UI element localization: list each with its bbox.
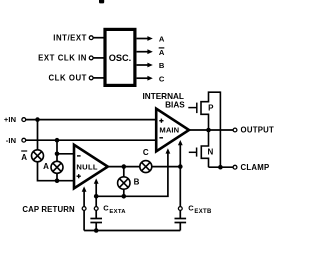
P gate lead from BIAS <box>188 107 197 109</box>
arrow into MAIN bottom (left) <box>166 148 171 153</box>
svg-text:CLK OUT: CLK OUT <box>49 74 88 83</box>
oscillator OSC <box>105 29 135 85</box>
wire CEXTB vertical up to MAIN <box>179 142 181 166</box>
node switch A to NULL + line <box>55 178 60 183</box>
svg-text:B: B <box>159 61 165 70</box>
wire NULL inverting input <box>57 153 75 155</box>
wire CEXTB vertical down to capacitor <box>179 167 181 219</box>
op-amp MAIN <box>156 109 189 152</box>
terminal CLAMP <box>233 163 269 172</box>
wire -IN row to MAIN - input <box>26 139 157 141</box>
svg-text:+IN: +IN <box>4 115 16 124</box>
wire CEXTA vertical <box>95 182 97 219</box>
op-amp NULL <box>74 145 108 189</box>
terminal CLK OUT <box>49 74 94 83</box>
svg-text:BIAS: BIAS <box>165 101 185 110</box>
svg-text:INT/EXT: INT/EXT <box>53 33 87 42</box>
chopper switch A <box>51 161 63 173</box>
svg-text:A: A <box>159 35 165 44</box>
svg-text:CAP RETURN: CAP RETURN <box>22 205 75 214</box>
wire NULL output to node <box>108 166 181 168</box>
terminal INT/EXT <box>53 33 93 42</box>
svg-text:C: C <box>103 203 109 212</box>
capacitor CEXTB <box>175 203 212 222</box>
svg-text:C: C <box>188 203 194 212</box>
svg-text:EXT CLK IN: EXT CLK IN <box>38 54 87 63</box>
arrow into NULL bottom (left) <box>82 186 87 191</box>
svg-text:A: A <box>43 162 49 171</box>
wire B branch down from NULL output <box>123 167 125 197</box>
svg-text:-IN: -IN <box>6 136 17 145</box>
label clock phase A-bar <box>159 48 165 57</box>
svg-text:EXTA: EXTA <box>109 209 126 215</box>
svg-text:P: P <box>208 103 214 112</box>
wire CLK OUT lead <box>93 77 104 79</box>
svg-text:A: A <box>21 153 27 162</box>
node NULL output / B branch <box>122 164 127 169</box>
N gate lead <box>189 151 197 153</box>
terminal OUTPUT <box>233 126 274 135</box>
wire CAP RETURN vertical <box>83 189 85 230</box>
wire V+ rail from P drain to CLAMP node <box>219 91 221 167</box>
svg-text:C: C <box>143 148 149 157</box>
wire clock output C <box>137 77 149 79</box>
svg-text:CLAMP: CLAMP <box>241 163 270 172</box>
wire EXT CLK IN lead <box>93 57 104 59</box>
arrowhead clock output B <box>147 63 152 68</box>
wire MAIN output <box>189 129 234 131</box>
node CEXTA at B row <box>94 194 99 199</box>
wire CEXTA below capacitor to rail <box>95 223 97 231</box>
wire CLAMP row <box>209 166 234 168</box>
terminal -IN <box>6 136 26 145</box>
wire +IN branch through switch A-bar <box>38 120 75 181</box>
svg-text:OUTPUT: OUTPUT <box>241 126 275 135</box>
wire +IN row to MAIN + input <box>26 119 157 121</box>
node NULL inverting tap <box>55 152 60 157</box>
transistor N (clamp device) <box>189 130 214 167</box>
transistor P (output device) <box>188 92 220 130</box>
node -IN branch <box>55 138 60 143</box>
switch C <box>140 161 152 173</box>
chopper switch A-bar <box>32 150 44 162</box>
wire bottom common rail <box>84 230 180 232</box>
wire clock output B <box>137 64 149 66</box>
wire CEXTB below capacitor to rail <box>179 223 181 231</box>
svg-text:C: C <box>159 74 165 83</box>
wire B bottom row to MAIN lower feed <box>96 151 168 197</box>
wire clock output A <box>137 38 149 40</box>
node +IN branch <box>35 117 40 122</box>
svg-text:N: N <box>208 148 214 157</box>
terminal CAP RETURN <box>22 205 86 214</box>
svg-text:EXTB: EXTB <box>194 209 212 215</box>
arrowhead clock output A <box>147 36 152 41</box>
svg-text:MAIN: MAIN <box>159 126 179 135</box>
svg-text:B: B <box>134 177 140 186</box>
capacitor CEXTA <box>90 203 126 222</box>
node C output to MAIN <box>178 164 183 169</box>
arrowhead clock output A-bar <box>147 49 152 54</box>
arrowhead clock output C <box>147 76 152 81</box>
label switch A-bar <box>21 151 27 162</box>
wire clock output A-bar <box>137 51 149 53</box>
node MAIN output <box>206 128 211 133</box>
N body: drain drop, channel notch, source drop <box>201 130 208 167</box>
svg-text:A: A <box>159 48 165 57</box>
switch B <box>118 177 130 189</box>
terminal EXT CLK IN <box>38 54 93 63</box>
wire INT/EXT lead <box>93 37 104 39</box>
P gate bar <box>196 103 198 114</box>
svg-text:OSC.: OSC. <box>109 53 131 63</box>
N gate bar <box>196 148 198 157</box>
arrow into MAIN bottom (right) <box>178 140 183 145</box>
arrow into NULL bottom (right) <box>94 178 99 183</box>
label INTERNAL BIAS <box>143 92 186 110</box>
node rail at CLAMP <box>218 165 223 170</box>
P body: drain top edge, channel notch, source drop <box>201 92 220 130</box>
node CEXTA at rail <box>94 228 99 233</box>
wire -IN branch through switch A <box>56 140 58 181</box>
terminal +IN <box>4 115 26 124</box>
node switch B bottom <box>122 194 127 199</box>
cropped text artifact at top <box>99 0 104 3</box>
svg-text:NULL: NULL <box>76 163 98 172</box>
